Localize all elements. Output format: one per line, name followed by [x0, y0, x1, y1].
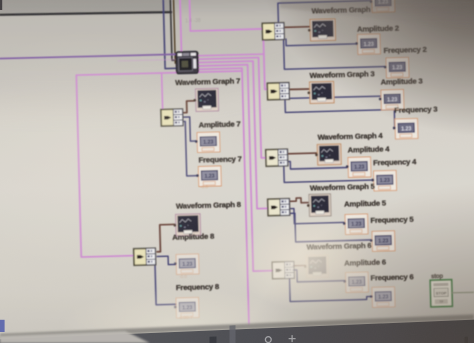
indicator top partial [370, 0, 395, 13]
frequency 2 indicator [384, 57, 409, 78]
wire navy to frequency5 [286, 211, 372, 242]
wire navy to frequency6 [290, 277, 372, 302]
wire black top rail [0, 10, 171, 17]
wire pink from top 2 [189, 0, 192, 31]
waveform graph 4 terminal [315, 144, 341, 165]
wire navy to amplitude4 [287, 160, 348, 169]
frequency 5 indicator [370, 231, 395, 252]
wire maroon unbundle2 to graph2 [282, 26, 309, 29]
waveform graph 5 terminal [307, 194, 331, 217]
wire navy to amplitude3 [288, 96, 381, 99]
wire pink fan 1 [198, 54, 264, 56]
stop button [430, 280, 452, 307]
wire pink long horizontal [77, 71, 242, 76]
wire navy vertical to cluster block [163, 0, 176, 69]
wire maroon unbundle7 to graph7 [181, 101, 195, 113]
ghost mark near top [185, 18, 201, 24]
waveform graph 7 terminal [193, 88, 218, 111]
waveform graph 3 terminal [307, 81, 334, 103]
taskbar icon window [210, 337, 217, 343]
frequency 6 indicator [370, 287, 395, 308]
blue tab left edge [0, 320, 5, 332]
amplitude 4 indicator [346, 157, 371, 178]
wire pink fan 5 down [198, 68, 249, 328]
wire navy to amplitude8 [157, 256, 176, 265]
wire pink riser unbundle2-3 [263, 29, 268, 90]
taskbar washed left [0, 331, 150, 343]
taskbar right dark mark [465, 337, 469, 343]
wire maroon unbundle8 to graph8 [156, 224, 176, 251]
wire violet cluster input [0, 54, 176, 59]
wire from stop button [452, 291, 474, 294]
left edge dark sliver [0, 0, 2, 10]
ghost digits under frequency 7 [200, 184, 208, 189]
ghost digits under frequency 8 [178, 315, 193, 320]
unbundle 8 [133, 248, 156, 266]
wire maroon unbundle5 to graph5 [286, 198, 308, 204]
wire navy unbundle2 to top indicator [278, 1, 373, 24]
wire pink fan 4 to unbundle6 [198, 64, 273, 272]
unbundle 7 [160, 109, 183, 127]
wire pink left vertical to unbundle8 [76, 74, 133, 257]
cool wash upper-left [0, 0, 345, 105]
window bottom edge band [0, 314, 474, 339]
amplitude 6 indicator [343, 272, 368, 293]
wire navy to frequency8 [155, 261, 176, 304]
frequency 8 indicator [174, 297, 199, 318]
wire black vertical to cluster block [170, 0, 176, 60]
wire maroon unbundle4 to graph4 [287, 152, 317, 155]
waveform graph 8 terminal [173, 214, 200, 236]
wire pink to unbundle2 [190, 29, 263, 31]
wire navy to amplitude7 [182, 117, 197, 142]
unbundle 3 [267, 82, 290, 100]
cluster source block [176, 51, 198, 73]
frequency 4 indicator [371, 170, 396, 191]
wire navy to frequency7 [182, 121, 198, 176]
unbundle 4 [265, 149, 288, 167]
waveform graph 6 terminal [304, 255, 329, 278]
wire navy to frequency4 [284, 164, 374, 183]
taskbar [0, 320, 474, 343]
taskbar separator [230, 325, 236, 343]
wire pink from top into block [180, 0, 181, 52]
wire pink riser to unbundle7 [162, 73, 163, 111]
wire maroon unbundle3 to graph3 [288, 88, 309, 91]
wire navy to frequency3 [285, 97, 395, 132]
amplitude 8 indicator [174, 254, 199, 275]
darker band above top rail [0, 0, 171, 14]
glare spots [234, 212, 390, 312]
amplitude 7 indicator [195, 132, 220, 153]
ghost digits under amplitude 8 [179, 274, 187, 279]
wire navy to amplitude5 [287, 207, 345, 224]
unbundle 2 [262, 22, 285, 40]
wire navy to amplitude2 [286, 37, 357, 46]
wire navy to frequency2 [284, 36, 386, 69]
wire navy to amplitude6 [293, 269, 346, 282]
amplitude 3 indicator [379, 89, 404, 110]
taskbar search ring [265, 337, 271, 343]
wire faint pink echo [118, 59, 176, 61]
taskbar plus icon [289, 335, 296, 342]
frequency 7 indicator [196, 166, 221, 187]
amplitude 5 indicator [343, 214, 368, 235]
frequency 3 indicator [393, 118, 418, 139]
wire pink fan 2 to unbundle4 [198, 57, 266, 159]
waveform graph 2 terminal [308, 19, 336, 41]
unbundle 5 [267, 198, 290, 216]
wire pink fan 3 to unbundle5 [198, 61, 268, 210]
unbundle 6 [272, 261, 295, 279]
wire brown vertical to cluster block [174, 0, 177, 63]
amplitude 2 indicator [355, 34, 380, 55]
wire maroon unbundle6 to graph6 [293, 264, 306, 266]
